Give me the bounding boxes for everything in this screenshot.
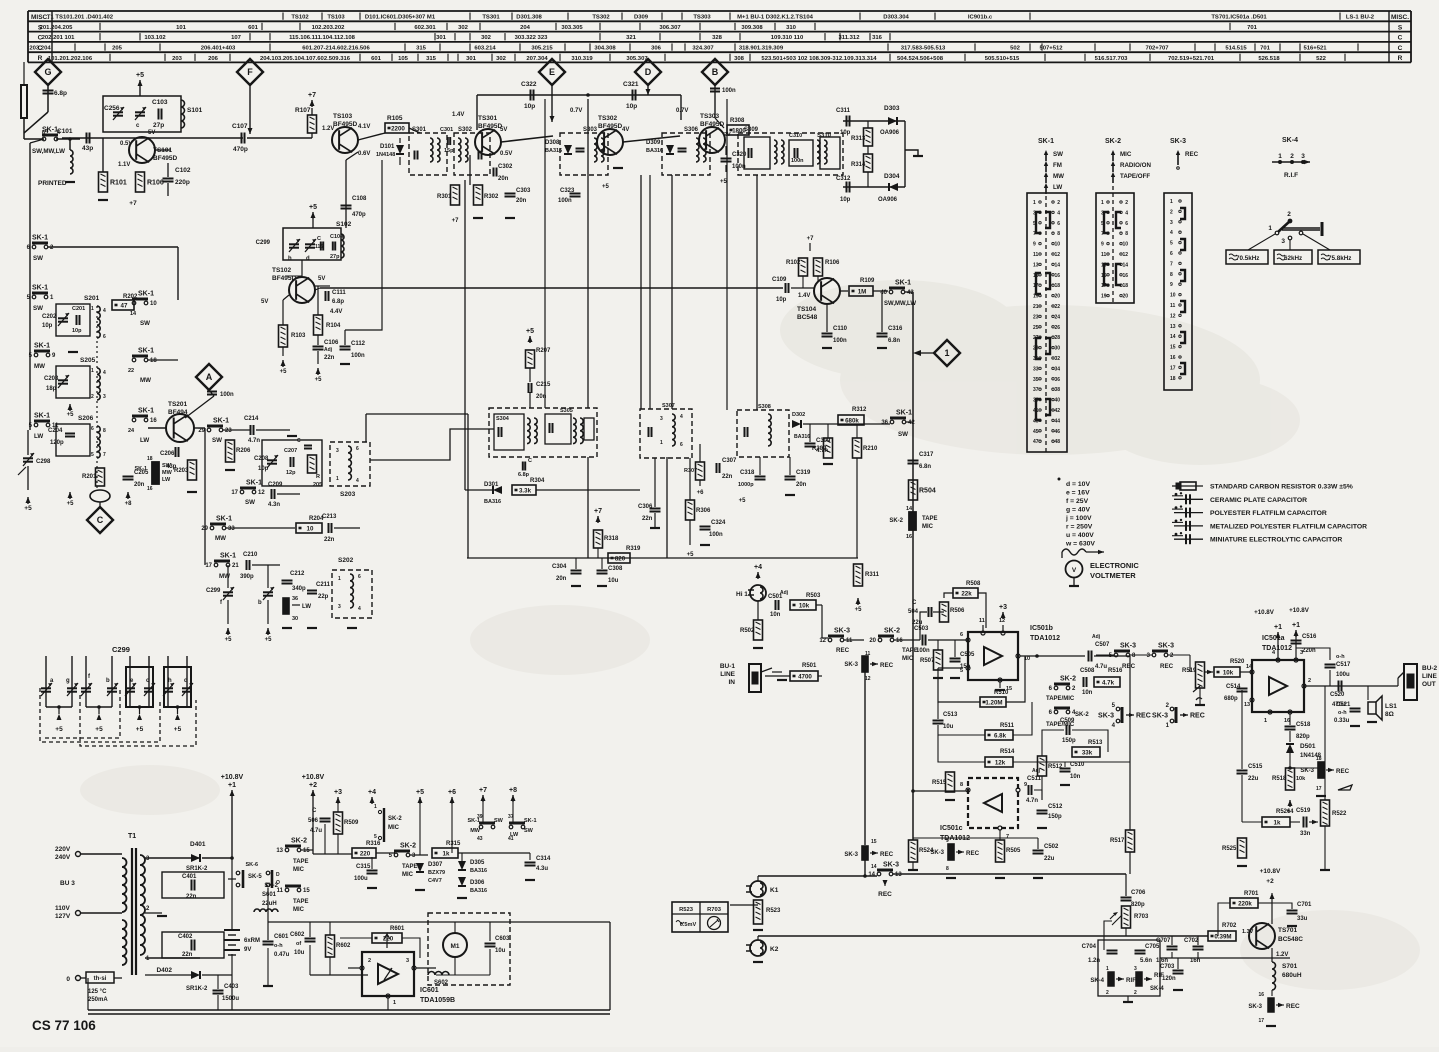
svg-text:1000p: 1000p xyxy=(738,482,754,488)
svg-text:340p: 340p xyxy=(292,586,306,592)
svg-text:R: R xyxy=(316,474,320,480)
svg-text:16: 16 xyxy=(1054,273,1060,279)
svg-text:REC: REC xyxy=(1185,151,1199,158)
svg-text:1.4V: 1.4V xyxy=(798,293,810,299)
svg-text:26: 26 xyxy=(1054,325,1060,331)
svg-text:13: 13 xyxy=(1033,262,1039,268)
svg-text:d: d xyxy=(306,256,310,262)
svg-text:SK-1: SK-1 xyxy=(1038,138,1054,145)
svg-text:BC548: BC548 xyxy=(797,314,818,321)
svg-text:C: C xyxy=(317,236,321,242)
svg-text:FM: FM xyxy=(1053,162,1062,169)
svg-text:6: 6 xyxy=(356,446,359,452)
svg-text:2: 2 xyxy=(1290,153,1294,160)
svg-text:303.322 323: 303.322 323 xyxy=(515,35,548,41)
svg-text:315: 315 xyxy=(426,56,437,62)
svg-text:BC548C: BC548C xyxy=(1278,936,1303,943)
svg-text:SK-2: SK-2 xyxy=(400,843,416,850)
svg-text:SK-1: SK-1 xyxy=(895,280,911,287)
svg-text:SK-1: SK-1 xyxy=(138,408,154,415)
svg-text:10n: 10n xyxy=(1070,774,1081,780)
svg-text:0: 0 xyxy=(66,976,70,983)
svg-text:D402: D402 xyxy=(156,967,172,974)
svg-text:C310: C310 xyxy=(789,133,802,139)
svg-text:17: 17 xyxy=(205,563,212,569)
svg-text:D308: D308 xyxy=(545,140,560,146)
svg-text:R523: R523 xyxy=(766,908,781,914)
svg-text:11: 11 xyxy=(979,618,985,624)
svg-text:TS303: TS303 xyxy=(693,15,711,21)
svg-text:C306: C306 xyxy=(638,504,653,510)
svg-text:C101: C101 xyxy=(57,128,73,135)
svg-text:13: 13 xyxy=(1170,324,1176,330)
svg-text:C401: C401 xyxy=(182,874,197,880)
svg-text:MW: MW xyxy=(470,828,481,834)
svg-text:506: 506 xyxy=(308,818,319,824)
svg-text:SK-3: SK-3 xyxy=(1300,768,1314,774)
svg-text:1: 1 xyxy=(1268,225,1272,232)
svg-text:20: 20 xyxy=(1054,294,1060,300)
svg-text:22u: 22u xyxy=(1248,776,1259,782)
svg-text:11: 11 xyxy=(1101,252,1107,258)
svg-text:BA316: BA316 xyxy=(484,499,501,505)
svg-text:3: 3 xyxy=(336,448,339,454)
svg-text:SK-1: SK-1 xyxy=(896,410,912,417)
svg-text:+10.8V: +10.8V xyxy=(302,774,325,781)
svg-text:SW: SW xyxy=(245,499,255,506)
svg-text:150p: 150p xyxy=(1062,738,1076,744)
svg-text:1: 1 xyxy=(91,368,94,374)
svg-text:2: 2 xyxy=(1134,990,1137,996)
svg-text:516.517.703: 516.517.703 xyxy=(1095,56,1128,62)
svg-text:BU-2: BU-2 xyxy=(1422,665,1438,672)
svg-text:BF495D: BF495D xyxy=(153,155,178,162)
svg-text:TS701.IC501a .D501: TS701.IC501a .D501 xyxy=(1211,15,1267,21)
svg-text:R517: R517 xyxy=(1110,838,1125,844)
svg-text:SW: SW xyxy=(1053,151,1063,158)
svg-text:514.515: 514.515 xyxy=(1225,46,1247,52)
svg-text:C603: C603 xyxy=(495,936,510,942)
svg-text:TDA1059B: TDA1059B xyxy=(420,997,455,1004)
svg-text:S202: S202 xyxy=(338,557,354,564)
svg-text:101.201.202.106: 101.201.202.106 xyxy=(48,56,93,62)
svg-text:+1: +1 xyxy=(1274,624,1282,631)
svg-text:REC: REC xyxy=(966,850,980,857)
svg-text:R314: R314 xyxy=(851,162,866,168)
svg-text:D307: D307 xyxy=(428,862,443,868)
svg-text:C110: C110 xyxy=(833,326,848,332)
svg-text:23: 23 xyxy=(1033,314,1039,320)
svg-text:6.8n: 6.8n xyxy=(888,338,900,344)
svg-text:9: 9 xyxy=(1170,282,1173,288)
svg-text:+2: +2 xyxy=(309,782,317,789)
svg-text:201.204.205: 201.204.205 xyxy=(40,25,73,31)
svg-text:8: 8 xyxy=(1125,231,1128,237)
svg-text:R518: R518 xyxy=(1272,776,1287,782)
svg-text:S310: S310 xyxy=(817,133,832,139)
svg-text:22p: 22p xyxy=(318,594,329,600)
svg-text:25: 25 xyxy=(1033,325,1039,331)
svg-text:9: 9 xyxy=(1024,782,1027,788)
svg-text:C512: C512 xyxy=(1048,804,1063,810)
svg-text:o-h: o-h xyxy=(274,943,283,949)
svg-text:w = 630V: w = 630V xyxy=(1065,541,1095,548)
svg-text:D401: D401 xyxy=(190,841,206,848)
svg-text:SK-2: SK-2 xyxy=(884,628,900,635)
svg-text:R309: R309 xyxy=(812,446,827,452)
svg-text:C402: C402 xyxy=(178,934,193,940)
svg-text:SK-3: SK-3 xyxy=(1248,1004,1262,1010)
svg-text:125 °C: 125 °C xyxy=(88,989,107,995)
svg-text:B: B xyxy=(712,67,719,77)
svg-text:REC: REC xyxy=(1122,663,1136,670)
svg-text:18: 18 xyxy=(150,358,157,364)
svg-text:308: 308 xyxy=(734,56,745,62)
svg-text:R106: R106 xyxy=(147,180,164,187)
svg-text:8: 8 xyxy=(960,782,963,788)
svg-text:20n: 20n xyxy=(498,176,509,182)
svg-text:28: 28 xyxy=(1054,335,1060,341)
svg-text:S: S xyxy=(1398,24,1403,31)
svg-text:C201: C201 xyxy=(72,306,85,312)
svg-text:G: G xyxy=(44,67,51,77)
svg-text:603.214: 603.214 xyxy=(474,46,496,52)
svg-text:4: 4 xyxy=(103,370,106,376)
svg-text:TS201: TS201 xyxy=(168,401,188,408)
svg-text:MIC: MIC xyxy=(293,907,305,913)
svg-text:R312: R312 xyxy=(852,407,867,413)
svg-text:g: g xyxy=(66,678,70,684)
svg-text:1.2V: 1.2V xyxy=(1276,952,1288,958)
svg-text:SW: SW xyxy=(33,305,43,312)
svg-text:C102: C102 xyxy=(175,167,191,174)
svg-text:S602: S602 xyxy=(434,980,449,986)
svg-text:47: 47 xyxy=(121,303,128,310)
svg-text:14: 14 xyxy=(1054,262,1060,268)
svg-text:6.8p: 6.8p xyxy=(332,299,344,305)
svg-text:SK-3: SK-3 xyxy=(844,852,858,858)
svg-text:3: 3 xyxy=(660,416,663,422)
svg-text:6: 6 xyxy=(1057,221,1060,227)
svg-text:5: 5 xyxy=(374,834,377,840)
svg-text:100n: 100n xyxy=(220,392,234,398)
svg-text:3: 3 xyxy=(1134,966,1137,972)
svg-text:C203: C203 xyxy=(44,376,59,382)
svg-text:C311: C311 xyxy=(836,108,851,114)
svg-text:LW: LW xyxy=(162,477,171,483)
svg-text:4.7n: 4.7n xyxy=(1026,798,1038,804)
svg-text:TS102: TS102 xyxy=(291,15,309,21)
svg-text:h: h xyxy=(288,256,292,262)
svg-text:C215: C215 xyxy=(536,382,551,388)
svg-text:C: C xyxy=(1398,35,1403,42)
svg-text:SK-5: SK-5 xyxy=(248,874,262,880)
svg-text:C705: C705 xyxy=(1145,944,1160,950)
svg-text:702.519+521.701: 702.519+521.701 xyxy=(1168,56,1215,62)
svg-text:12p: 12p xyxy=(286,470,296,476)
svg-text:S306: S306 xyxy=(684,127,699,133)
svg-text:SW: SW xyxy=(898,431,908,438)
svg-text:C507: C507 xyxy=(1095,642,1110,648)
svg-text:1: 1 xyxy=(1278,153,1282,160)
svg-text:SK-6: SK-6 xyxy=(245,862,258,868)
svg-text:504: 504 xyxy=(908,609,919,615)
svg-text:R311: R311 xyxy=(865,572,880,578)
svg-text:SW: SW xyxy=(524,828,534,834)
svg-text:R201: R201 xyxy=(82,474,97,480)
svg-text:202.201 101: 202.201 101 xyxy=(42,35,75,41)
svg-text:20n: 20n xyxy=(516,198,527,204)
svg-text:C107: C107 xyxy=(232,123,248,130)
svg-text:R501: R501 xyxy=(802,663,817,669)
svg-text:6: 6 xyxy=(1170,251,1173,257)
svg-text:22n: 22n xyxy=(182,952,193,958)
svg-text:10k: 10k xyxy=(1296,776,1306,782)
svg-text:38: 38 xyxy=(1054,387,1060,393)
svg-text:+5: +5 xyxy=(67,412,75,418)
svg-text:4: 4 xyxy=(1057,210,1060,216)
svg-text:R109: R109 xyxy=(860,278,875,284)
svg-text:R505: R505 xyxy=(1006,848,1021,854)
svg-text:100n: 100n xyxy=(791,158,804,164)
svg-text:10u: 10u xyxy=(294,950,305,956)
svg-text:MINIATURE ELECTROLYTIC CAPACIT: MINIATURE ELECTROLYTIC CAPACITOR xyxy=(1210,537,1342,544)
svg-text:C317: C317 xyxy=(919,452,934,458)
svg-text:6.8p: 6.8p xyxy=(54,90,67,97)
svg-text:10p: 10p xyxy=(258,466,269,472)
svg-text:120p: 120p xyxy=(50,440,64,446)
svg-text:METALIZED POLYESTER FLATFILM C: METALIZED POLYESTER FLATFILM CAPACITOR xyxy=(1210,523,1367,530)
svg-text:20n: 20n xyxy=(134,482,145,488)
svg-text:11: 11 xyxy=(1033,252,1039,258)
svg-text:203: 203 xyxy=(172,56,183,62)
svg-text:33u: 33u xyxy=(1297,916,1308,922)
svg-text:LW: LW xyxy=(140,437,149,444)
svg-text:4.7n: 4.7n xyxy=(248,438,260,444)
svg-text:220n: 220n xyxy=(1302,648,1316,654)
svg-text:C: C xyxy=(297,438,301,444)
svg-text:CS 77 106: CS 77 106 xyxy=(32,1018,96,1033)
svg-text:SK-3: SK-3 xyxy=(1158,643,1174,650)
svg-text:505.510+515: 505.510+515 xyxy=(985,56,1020,62)
svg-text:5V: 5V xyxy=(318,276,325,282)
svg-text:S304: S304 xyxy=(496,416,510,422)
svg-text:37: 37 xyxy=(1033,387,1039,393)
svg-text:+1: +1 xyxy=(228,782,236,789)
svg-text:ELECTRONIC: ELECTRONIC xyxy=(1090,561,1139,570)
svg-text:BA316: BA316 xyxy=(646,148,663,154)
svg-text:+5: +5 xyxy=(739,498,747,504)
svg-text:9: 9 xyxy=(1033,242,1036,248)
svg-text:+8: +8 xyxy=(509,787,517,794)
svg-text:+5: +5 xyxy=(416,789,424,796)
svg-text:C521: C521 xyxy=(1336,702,1351,708)
svg-text:R502: R502 xyxy=(740,628,755,634)
svg-text:SK-2: SK-2 xyxy=(388,816,402,822)
svg-text:C: C xyxy=(312,808,317,814)
svg-text:C516: C516 xyxy=(1302,634,1317,640)
svg-text:R: R xyxy=(1398,55,1403,62)
svg-text:MIC: MIC xyxy=(402,872,414,878)
svg-text:6.8p: 6.8p xyxy=(518,472,530,478)
svg-text:C520: C520 xyxy=(1330,692,1345,698)
svg-text:+7: +7 xyxy=(594,508,602,515)
svg-text:S302: S302 xyxy=(458,127,473,133)
svg-text:100n: 100n xyxy=(709,532,723,538)
svg-text:IC501c: IC501c xyxy=(940,825,963,832)
svg-text:VOLTMETER: VOLTMETER xyxy=(1090,571,1136,580)
svg-text:u = 400V: u = 400V xyxy=(1066,532,1094,539)
svg-text:BA316: BA316 xyxy=(545,148,562,154)
svg-text:R301: R301 xyxy=(437,194,452,200)
svg-text:27p: 27p xyxy=(330,254,340,260)
svg-text:Adj: Adj xyxy=(1032,768,1041,774)
svg-text:4: 4 xyxy=(1125,210,1128,216)
svg-text:2: 2 xyxy=(1125,200,1128,206)
svg-text:321: 321 xyxy=(626,35,637,41)
svg-text:R703: R703 xyxy=(707,907,722,913)
svg-text:SK-1: SK-1 xyxy=(213,418,229,425)
svg-text:14: 14 xyxy=(130,311,137,317)
svg-text:C602: C602 xyxy=(290,932,305,938)
svg-text:LINE: LINE xyxy=(1422,673,1437,680)
svg-text:328: 328 xyxy=(712,35,723,41)
svg-text:SK-3: SK-3 xyxy=(1120,643,1136,650)
svg-text:Adj: Adj xyxy=(1092,634,1101,640)
svg-text:0.5V: 0.5V xyxy=(500,151,512,157)
svg-text:D: D xyxy=(645,67,652,77)
svg-text:BU-1: BU-1 xyxy=(720,663,736,670)
svg-text:6.5mV: 6.5mV xyxy=(680,922,697,928)
svg-text:10: 10 xyxy=(307,526,314,533)
svg-text:STANDARD CARBON RESISTOR 0.33: STANDARD CARBON RESISTOR 0.33W ±5% xyxy=(1210,484,1353,491)
svg-text:1k: 1k xyxy=(443,851,450,858)
svg-text:10n: 10n xyxy=(1082,690,1093,696)
svg-text:+5: +5 xyxy=(174,726,182,733)
svg-text:R103: R103 xyxy=(291,333,306,339)
svg-text:C111: C111 xyxy=(332,290,346,296)
svg-text:316: 316 xyxy=(872,35,883,41)
svg-text:240V: 240V xyxy=(55,854,71,861)
svg-text:+5: +5 xyxy=(315,377,323,383)
svg-text:C: C xyxy=(912,600,917,606)
svg-text:4.3n: 4.3n xyxy=(268,502,280,508)
svg-text:REC: REC xyxy=(1336,768,1350,775)
svg-text:TS102: TS102 xyxy=(272,267,292,274)
svg-text:C706: C706 xyxy=(1131,890,1146,896)
svg-text:MIC: MIC xyxy=(922,524,934,530)
svg-text:4.3u: 4.3u xyxy=(536,866,548,872)
svg-text:18: 18 xyxy=(147,456,153,462)
svg-text:+5: +5 xyxy=(55,726,63,733)
svg-text:10: 10 xyxy=(1122,242,1128,248)
svg-text:6: 6 xyxy=(358,574,361,580)
svg-text:4: 4 xyxy=(1170,230,1173,236)
svg-text:MIC: MIC xyxy=(293,867,305,873)
svg-text:TAPE/MIC: TAPE/MIC xyxy=(1046,722,1075,728)
svg-text:C212: C212 xyxy=(290,571,305,577)
svg-text:C: C xyxy=(1398,45,1403,52)
svg-text:8: 8 xyxy=(946,866,949,872)
svg-text:22: 22 xyxy=(128,368,134,374)
svg-text:602.301: 602.301 xyxy=(414,25,436,31)
svg-text:C206: C206 xyxy=(160,451,175,457)
svg-text:g = 40V: g = 40V xyxy=(1066,507,1090,514)
svg-text:16: 16 xyxy=(147,486,153,492)
svg-text:S309: S309 xyxy=(744,127,759,133)
svg-text:1: 1 xyxy=(944,348,949,358)
svg-text:15: 15 xyxy=(871,839,877,845)
svg-text:1: 1 xyxy=(338,576,341,582)
svg-text:TS302: TS302 xyxy=(598,115,618,122)
svg-text:+4: +4 xyxy=(368,789,376,796)
svg-text:BF495D: BF495D xyxy=(478,123,503,130)
svg-text:C319: C319 xyxy=(796,470,811,476)
svg-text:601: 601 xyxy=(248,25,259,31)
svg-text:601: 601 xyxy=(371,56,382,62)
svg-text:C112: C112 xyxy=(351,341,366,347)
svg-text:C304: C304 xyxy=(552,564,567,570)
svg-text:D301: D301 xyxy=(484,482,499,488)
svg-text:36: 36 xyxy=(881,420,888,426)
svg-text:C514: C514 xyxy=(1226,684,1241,690)
svg-text:C211: C211 xyxy=(316,582,331,588)
svg-text:310: 310 xyxy=(786,25,797,31)
svg-text:103.102: 103.102 xyxy=(144,35,166,41)
svg-text:C508: C508 xyxy=(1080,668,1095,674)
svg-text:SK-3: SK-3 xyxy=(1152,713,1168,720)
svg-text:+6: +6 xyxy=(697,490,705,496)
svg-text:D306: D306 xyxy=(470,880,485,886)
svg-text:2200: 2200 xyxy=(391,126,405,133)
svg-text:D309: D309 xyxy=(634,15,649,21)
svg-text:35: 35 xyxy=(1033,377,1039,383)
svg-text:S301: S301 xyxy=(412,127,427,133)
svg-text:10p: 10p xyxy=(524,103,535,110)
svg-text:3: 3 xyxy=(1281,238,1285,245)
svg-text:18: 18 xyxy=(1170,376,1176,382)
svg-text:3: 3 xyxy=(1170,220,1173,226)
svg-text:16n: 16n xyxy=(1190,958,1201,964)
svg-text:d: d xyxy=(184,678,188,684)
svg-text:+5: +5 xyxy=(265,637,273,643)
svg-text:304.308: 304.308 xyxy=(594,46,616,52)
svg-text:TDA1012: TDA1012 xyxy=(1030,635,1060,642)
svg-text:C701: C701 xyxy=(1297,902,1312,908)
svg-text:46: 46 xyxy=(1054,429,1060,435)
svg-text:C519: C519 xyxy=(1296,808,1311,814)
svg-text:311.312: 311.312 xyxy=(839,35,861,41)
svg-text:301: 301 xyxy=(466,56,477,62)
svg-text:10p: 10p xyxy=(840,197,851,203)
svg-text:SK-1: SK-1 xyxy=(246,480,262,487)
svg-text:+3: +3 xyxy=(334,789,342,796)
svg-text:303.305: 303.305 xyxy=(561,25,583,31)
svg-text:36: 36 xyxy=(292,596,298,602)
svg-text:523.501+503 102 108.309-312.1: 523.501+503 102 108.309-312.109.313.314 xyxy=(761,56,877,62)
svg-text:220: 220 xyxy=(360,851,371,858)
svg-text:MW: MW xyxy=(1053,173,1064,180)
svg-text:317.583-505.513: 317.583-505.513 xyxy=(901,46,946,52)
svg-text:SK-1: SK-1 xyxy=(34,413,50,420)
svg-text:15p: 15p xyxy=(444,148,454,154)
svg-text:22n: 22n xyxy=(642,516,653,522)
svg-text:7: 7 xyxy=(1170,261,1173,267)
svg-text:S203: S203 xyxy=(340,491,356,498)
svg-text:R: R xyxy=(38,55,43,62)
svg-text:TS104: TS104 xyxy=(797,306,817,313)
svg-text:5V: 5V xyxy=(148,130,155,136)
